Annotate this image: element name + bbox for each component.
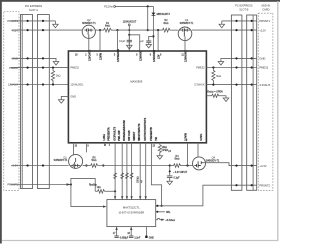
- node R6 to pin1 vertical: [114, 190, 116, 192]
- wire PME32 left row: [11, 67, 69, 69]
- svg-text:+12V: +12V: [259, 28, 266, 32]
- svg-text:MBRS130T3: MBRS130T3: [157, 14, 171, 16]
- connector J1 slot rectangle: [21, 15, 33, 189]
- svg-text:12VAUX: 12VAUX: [139, 51, 142, 61]
- resistor R4 5mohm: [170, 164, 193, 168]
- node bus tap: [147, 5, 149, 7]
- svg-text:12VAUXDL: 12VAUXDL: [70, 83, 84, 87]
- svg-text:6mΩ: 6mΩ: [105, 25, 110, 28]
- svg-text:PCI EXPRESS: PCI EXPRESS: [25, 4, 43, 8]
- wire PRSNT2 up branch: [71, 178, 95, 191]
- node GND J2: [42, 57, 44, 59]
- svg-text:10-BIT I/O EXPANDER: 10-BIT I/O EXPANDER: [118, 212, 144, 215]
- wire 12VAUX left row: [10, 84, 68, 86]
- svg-text:PRESENTA: PRESENTA: [108, 127, 111, 141]
- svg-text:Q3: Q3: [185, 18, 189, 22]
- svg-text:PRSNT1: PRSNT1: [259, 19, 270, 23]
- transistor Q3: [178, 18, 194, 40]
- ground C3: [167, 181, 173, 185]
- svg-text:GND: GND: [259, 57, 265, 61]
- svg-text:CARD: CARD: [262, 7, 269, 11]
- node PRSNT2 junction: [70, 183, 72, 185]
- node R1 right: [116, 29, 118, 31]
- wire U1 sense stub: [85, 143, 87, 153]
- node 12VAUX J1: [27, 83, 29, 85]
- wire Q4 gate to U1: [197, 143, 199, 157]
- svg-text:TM: TM: [155, 137, 158, 141]
- diode D1 MBRS130T3: [152, 13, 156, 16]
- expander bottom pin GND: [145, 227, 147, 236]
- node GND J4: [251, 57, 253, 59]
- capacitor C2 1uF: [146, 41, 151, 42]
- svg-text:Q2: Q2: [87, 18, 91, 22]
- node +12V J3: [235, 29, 237, 31]
- svg-text:6mΩ: 6mΩ: [164, 22, 169, 25]
- wire +12V row to right slot: [192, 29, 257, 31]
- resistor R9 optional: [206, 94, 226, 98]
- wire R1 right pin down to U1: [117, 30, 119, 51]
- node PRSNT1 J2: [42, 20, 44, 22]
- resistor R6 1k: [95, 190, 115, 194]
- svg-text:P12Vin: P12Vin: [104, 5, 113, 9]
- svg-text:1.35A: 1.35A: [103, 134, 106, 141]
- resistor R7 6k: [212, 68, 215, 85]
- ground right GND: [218, 62, 224, 66]
- node +3.3V J3: [235, 165, 237, 167]
- wire GND right row: [221, 58, 257, 61]
- vertical pin2 wire: [121, 143, 123, 200]
- svg-text:0.1µF: 0.1µF: [174, 178, 181, 180]
- node 12VAUXOUT row: [128, 29, 130, 31]
- node PME32 J1: [27, 67, 29, 69]
- wire PRSNT1 left row: [11, 20, 55, 22]
- node +12V J2: [42, 29, 44, 31]
- svg-text:100kΩ: 100kΩ: [137, 176, 140, 183]
- connector J1 inner line: [21, 15, 23, 189]
- wire expander row1: [156, 185, 257, 206]
- wire +3.3V row to 0.1uF node: [98, 165, 170, 167]
- vertical pin1 wire to expander: [114, 143, 116, 200]
- svg-text:1kΩ: 1kΩ: [56, 73, 61, 77]
- wire diode branch: [152, 6, 154, 51]
- svg-text:12VAUXOUT: 12VAUXOUT: [123, 20, 137, 23]
- svg-text:2.2nF: 2.2nF: [134, 237, 140, 239]
- wire 3.3Vaux pin with hop: [156, 218, 162, 219]
- capacitor C3 0.1uF: [167, 176, 173, 178]
- svg-text:PWL RW: PWL RW: [118, 130, 121, 141]
- svg-text:SI4563DY-T1: SI4563DY-T1: [180, 23, 194, 25]
- wire U1 pin to R4 node: [187, 143, 189, 166]
- svg-text:12VSENSE: 12VSENSE: [117, 49, 120, 62]
- svg-text:OC/FAULTS: OC/FAULTS: [113, 126, 116, 140]
- svg-text:12VAUXIN: 12VAUXIN: [153, 50, 156, 62]
- node 3.3V input: [169, 164, 171, 166]
- svg-text:ADD-IN: ADD-IN: [261, 4, 270, 8]
- wire PRESENTB net: [151, 143, 161, 206]
- wire Q4 out to right slot: [204, 163, 257, 166]
- wire Q2 gate to U1: [88, 38, 90, 51]
- node 12VAUXOUT cap tap: [128, 34, 130, 36]
- wire U1 GND pin: [61, 96, 68, 99]
- svg-text:MAX7312CTL: MAX7312CTL: [123, 205, 140, 209]
- node 3.3VAUX R7 bottom: [212, 84, 214, 86]
- node R5 right: [102, 164, 104, 166]
- vertical pin3 wire: [126, 143, 128, 200]
- svg-text:←3.3V INPUT: ←3.3V INPUT: [173, 172, 188, 174]
- node PRESENTB join: [161, 205, 163, 207]
- node +12V at bus tap: [147, 29, 149, 31]
- wire GND left row: [12, 58, 57, 61]
- node R1 left: [99, 29, 101, 31]
- resistor R8 pulldown: [159, 143, 161, 145]
- node Q1 out: [85, 164, 87, 166]
- ground C1: [127, 45, 133, 49]
- node 3.3VAUX J4: [251, 84, 253, 86]
- svg-text:1kΩ: 1kΩ: [97, 186, 101, 189]
- wire PRSNT2 left vertical: [71, 185, 105, 207]
- svg-text:Q4: Q4: [212, 156, 216, 160]
- ground R9: [223, 98, 229, 102]
- svg-text:DW OAB: DW OAB: [128, 130, 131, 141]
- resistor R1 6mohm: [100, 28, 118, 32]
- resistor R5 5mohm: [91, 164, 98, 168]
- svg-text:PRESENTB: PRESENTB: [150, 127, 153, 141]
- wire Q1 gate to U1: [73, 143, 75, 155]
- page border bottom: [2, 240, 279, 241]
- expander bottom pin C4: [116, 227, 118, 236]
- connector J2 card rectangle: [38, 15, 50, 189]
- ground C2: [146, 45, 152, 48]
- node +12V J4: [251, 29, 253, 31]
- wire +3.3V left row: [12, 165, 69, 167]
- ground R8: [157, 156, 163, 159]
- ground left PRSNT1: [53, 21, 59, 28]
- connector J3 slot rectangle: [231, 15, 242, 190]
- wire 3.3VAUX right row: [206, 84, 256, 86]
- transistor Q4: [193, 156, 221, 170]
- wire cap C2 tap: [149, 36, 154, 40]
- wire 12VAUXOUT down: [128, 26, 130, 51]
- ground U1 GND: [58, 100, 64, 104]
- expander bottom pin C5: [130, 227, 132, 236]
- svg-text:SBL: SBL: [166, 212, 171, 214]
- node R4 right: [186, 164, 188, 166]
- resistor R3 1k: [51, 68, 54, 85]
- svg-text:PME32: PME32: [259, 66, 268, 70]
- page border right: [277, 1, 278, 241]
- right dashed card box: [258, 13, 273, 190]
- page border left: [0, 0, 2, 244]
- node PME R7 top: [212, 66, 214, 68]
- ground left GND: [53, 62, 59, 66]
- svg-text:SI4563DY-T1: SI4563DY-T1: [206, 161, 220, 163]
- wire top bus P12Vin: [116, 5, 154, 7]
- wire +12V row mid: [95, 29, 100, 31]
- svg-text:0.068µF: 0.068µF: [120, 237, 129, 239]
- svg-text:3.3VAUX: 3.3VAUX: [259, 83, 270, 87]
- node SBL: [156, 211, 158, 213]
- transistor Q2: [82, 18, 96, 38]
- svg-text:SLOT B: SLOT B: [239, 7, 248, 11]
- wire R1 left pin down to U1: [99, 30, 101, 51]
- wire +12V row to diode junction: [118, 29, 163, 31]
- node PRSNT2 J4: [251, 184, 253, 186]
- node diode cap tap: [152, 35, 154, 37]
- svg-text:GND: GND: [149, 237, 154, 239]
- svg-text:10µF: 10µF: [119, 39, 126, 43]
- arrow into expander left pin: [103, 205, 107, 207]
- svg-text:SI4563DY-T1: SI4563DY-T1: [54, 160, 68, 162]
- svg-text:OUTPUT/OUTPUTS: OUTPUT/OUTPUTS: [144, 118, 147, 141]
- wire PME right row: [206, 67, 256, 69]
- node PME32 J2: [42, 67, 44, 69]
- connector J4 card rectangle: [247, 15, 257, 190]
- svg-text:PME32: PME32: [196, 66, 205, 70]
- node 12VAUX J2: [42, 83, 44, 85]
- expander U2 box: [107, 200, 156, 227]
- terminal P12Vin: [114, 6, 116, 8]
- wire R2 left pin down to U1: [157, 30, 159, 51]
- vertical pin6 wire: [145, 143, 147, 200]
- node PRSNT1 J3: [235, 20, 237, 22]
- wire bus tap down to +12V row: [147, 6, 149, 30]
- svg-text:WRST/INPUTS: WRST/INPUTS: [138, 123, 141, 141]
- node +12V J1: [27, 29, 29, 31]
- svg-text:12VIN: 12VIN: [100, 53, 103, 60]
- ground right PRSNT1: [219, 21, 225, 28]
- svg-text:SLOT A: SLOT A: [29, 8, 38, 12]
- IC U1 MAX5959: [68, 51, 206, 143]
- svg-text:Q1: Q1: [63, 155, 67, 159]
- node R2 left: [157, 29, 159, 31]
- wire Q3 gate to U1: [184, 36, 186, 51]
- node row1 stub: [156, 205, 158, 207]
- svg-text:PRSNT2: PRSNT2: [259, 183, 270, 187]
- connector J4 inner line: [252, 15, 254, 190]
- svg-text:6kΩ: 6kΩ: [216, 74, 221, 78]
- svg-text:PCI EXPRESS: PCI EXPRESS: [235, 4, 253, 8]
- page border top: [0, 0, 280, 2]
- resistor R2 6mohm: [163, 28, 179, 32]
- U1 bottom short stubs: [104, 143, 106, 146]
- terminal 12VAUXOUT: [128, 24, 130, 26]
- svg-text:12VGATE: 12VGATE: [88, 49, 91, 61]
- node label tap: [169, 170, 171, 172]
- svg-text:5mΩ: 5mΩ: [92, 159, 97, 162]
- svg-text:3.3VAUX: 3.3VAUX: [194, 83, 205, 87]
- node PME J4: [251, 66, 253, 68]
- svg-text:+3.3Vaux: +3.3Vaux: [165, 220, 175, 222]
- node 12VAUX R3 bottom: [52, 83, 54, 85]
- svg-text:10kΩ: 10kΩ: [162, 146, 168, 149]
- node +3.3V J1: [27, 164, 29, 166]
- left dashed backplane box: [4, 12, 19, 191]
- node +3.3V J4: [251, 165, 253, 167]
- wire 0.1uF branch: [169, 166, 171, 176]
- svg-text:5mΩ: 5mΩ: [175, 158, 180, 161]
- svg-text:PME32: PME32: [70, 66, 79, 70]
- capacitor C1 10uF: [128, 35, 130, 40]
- svg-text:SWRST: SWRST: [133, 131, 136, 141]
- svg-text:+3.3V: +3.3V: [259, 164, 266, 168]
- vertical pin5 wire: [139, 143, 141, 200]
- arrow PRSNT2: [67, 183, 71, 186]
- svg-text:GND: GND: [70, 95, 76, 99]
- svg-text:12VAUXG: 12VAUXG: [185, 50, 188, 62]
- node 3.3VAUX J3: [235, 84, 237, 86]
- wire cap C1 branch: [129, 35, 139, 51]
- node +3.3V J2: [42, 164, 44, 166]
- svg-text:3.3VG: 3.3VG: [200, 134, 203, 141]
- svg-text:BUSENA/HUSOM: BUSENA/HUSOM: [123, 120, 126, 141]
- node PME32 R3 top: [52, 67, 54, 69]
- node GND J3: [235, 57, 237, 59]
- vertical pin4 wire: [131, 143, 133, 200]
- right slot: wire PRSNT1 row: [222, 20, 257, 22]
- node PRSNT2 J3: [235, 184, 237, 186]
- wire PRSNT2 left row with arrow: [11, 184, 71, 186]
- node GND J1: [27, 57, 29, 59]
- transistor Q1: [54, 154, 83, 168]
- node PRSNT1 J4: [251, 20, 253, 22]
- wire +12V left row: [12, 29, 83, 31]
- node PME J3: [235, 66, 237, 68]
- svg-text:MAX5959: MAX5959: [130, 79, 142, 83]
- wire SBL pin: [156, 211, 165, 213]
- node PRSNT1 J1: [27, 20, 29, 22]
- wire +3.3V row q1 to r5: [83, 165, 91, 167]
